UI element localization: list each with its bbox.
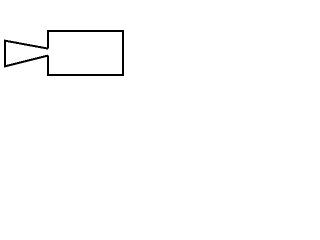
loudspeaker LS1 horn (trapezoid cone) bbox=[5, 41, 48, 67]
loudspeaker LS1 body (rectangle with open left-edge gap) bbox=[48, 31, 123, 75]
